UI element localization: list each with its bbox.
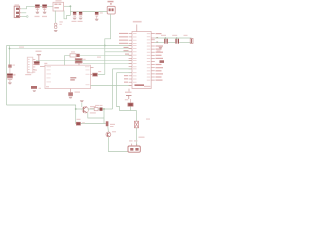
wire left rail vertical xyxy=(6,46,8,106)
capacitor C10 under IC2 xyxy=(68,89,80,96)
ground under C2 xyxy=(43,12,47,14)
wire down to fuse xyxy=(136,111,138,122)
node dot rail xyxy=(75,108,77,110)
wire top rail input xyxy=(27,5,54,7)
diode D2 left xyxy=(8,65,15,76)
node junction dot xyxy=(104,45,106,47)
node dot output xyxy=(70,5,72,7)
label net lower right xyxy=(146,119,150,120)
crystal Q1 xyxy=(184,35,194,44)
diode D3 xyxy=(128,99,134,111)
wire top rail output xyxy=(70,11,107,13)
ground under C6 xyxy=(8,82,12,84)
switch S1 xyxy=(107,1,115,14)
IC1 inside pin names xyxy=(133,33,150,83)
wire fuse to connector xyxy=(136,128,138,146)
wire Q3 bar to circle xyxy=(107,126,110,132)
xtal pin marks xyxy=(156,37,158,38)
node dot inner xyxy=(9,48,11,50)
wire row y51 xyxy=(105,51,131,53)
IC1 bottom pin GND xyxy=(125,89,129,101)
wire riser x104 xyxy=(104,46,106,75)
label above regulator xyxy=(56,0,62,1)
wire row y63 xyxy=(83,63,131,65)
wire output drop xyxy=(69,6,71,15)
wire caps to crystal xyxy=(179,42,191,44)
IC1 right pin stubs xyxy=(151,34,155,81)
driver IC2 box xyxy=(45,65,91,88)
wire vertical x112 xyxy=(112,69,114,109)
IC1 left pin labels xyxy=(119,33,129,83)
net label row48 xyxy=(19,47,24,48)
wire between caps xyxy=(168,42,175,44)
IC1 left pin stubs xyxy=(129,34,132,86)
component on right pin xyxy=(160,60,165,63)
ground under C4 xyxy=(79,18,83,20)
ground mid-left xyxy=(33,90,37,92)
capacitor C9 right of IC2 xyxy=(91,71,102,77)
wire regulator output xyxy=(64,5,70,7)
capacitor C7 mid xyxy=(34,61,40,65)
wire Q2 emitter loop xyxy=(88,112,104,118)
label net right xyxy=(144,86,151,87)
wire bottom rail xyxy=(7,105,106,124)
transistor Q2 xyxy=(80,100,96,113)
net label row55 xyxy=(97,57,101,58)
wire IC1 row 69 xyxy=(113,68,132,70)
supply VCC mid xyxy=(36,51,42,62)
capacitor C3 xyxy=(73,12,77,16)
wire cap to vertical xyxy=(98,74,105,76)
resistor R2 row xyxy=(70,51,80,57)
wire J1 pin2 xyxy=(21,12,26,14)
wire IC1 row 73 xyxy=(117,72,132,74)
wire regulator gnd leg xyxy=(54,11,56,23)
wire row y55 right xyxy=(80,55,131,57)
ground under C1 xyxy=(35,12,39,14)
wire Q3 down to connector xyxy=(108,137,128,151)
fuse F1 xyxy=(135,121,139,128)
diode D1 xyxy=(100,108,103,111)
voltage regulator IC3 xyxy=(53,2,64,11)
header SV1 xyxy=(25,57,37,75)
IC2 right pin stub xyxy=(91,67,94,69)
wire J1 pin1 to rail xyxy=(21,6,26,9)
wire Q2 to R3 xyxy=(88,108,95,110)
wire rail to Q2 base xyxy=(76,108,84,110)
capacitor C8 on top of IC2 xyxy=(75,58,86,65)
motor connector X1 xyxy=(128,137,145,153)
wire main rail xyxy=(7,45,132,47)
node junction circle xyxy=(27,16,29,18)
capacitor C12 xyxy=(172,35,179,44)
ground under C5 xyxy=(95,19,99,21)
transistor Q3 xyxy=(106,121,116,137)
wire D1 to riser xyxy=(103,108,113,110)
capacitor C13 on bottom rail xyxy=(76,119,85,126)
node dot crystal 1 xyxy=(165,37,167,39)
resistor R3 xyxy=(94,105,102,111)
capacitor C14 mid-left xyxy=(31,86,41,89)
wire row y60 xyxy=(36,60,131,62)
wire row y85 xyxy=(91,85,132,87)
connector J1 xyxy=(14,4,21,17)
ground under C10 xyxy=(69,97,73,99)
supply VCC bottom xyxy=(125,92,132,99)
capacitor C11 xyxy=(161,35,168,44)
IC1 top pin VCC xyxy=(133,21,142,32)
pin stub into IC2 xyxy=(40,66,45,68)
ground crystal xyxy=(159,47,163,49)
capacitor C1 xyxy=(35,4,40,8)
capacitor C4 xyxy=(79,12,83,16)
wire crystal bottom xyxy=(155,42,164,44)
capacitor C2 xyxy=(42,4,47,8)
ground under C3 xyxy=(73,18,77,20)
wire crystal top xyxy=(155,37,192,39)
node dot crystal 2 xyxy=(176,37,178,39)
microcontroller IC1 xyxy=(132,32,151,89)
ground under lamp xyxy=(54,30,58,32)
wire drop to IC2 top pin xyxy=(64,56,66,66)
wire staircase under regulator xyxy=(64,11,70,19)
capacitor C6 left xyxy=(7,73,13,78)
IC1 right pin labels xyxy=(156,33,164,81)
node dot diode xyxy=(103,108,105,110)
wire row y55 left xyxy=(65,55,71,57)
capacitor C5 xyxy=(95,12,99,16)
wire row y48 xyxy=(10,48,132,50)
wire inner vertical xyxy=(9,46,11,65)
wire vertical x104 xyxy=(103,109,105,124)
wire vertical x116 to diode node xyxy=(117,73,137,111)
wire J1 pin3 xyxy=(21,15,26,17)
lamp LED1 under regulator xyxy=(54,21,62,28)
wire switch drop to rail xyxy=(105,14,111,46)
wire R3 to D1 xyxy=(98,108,99,110)
